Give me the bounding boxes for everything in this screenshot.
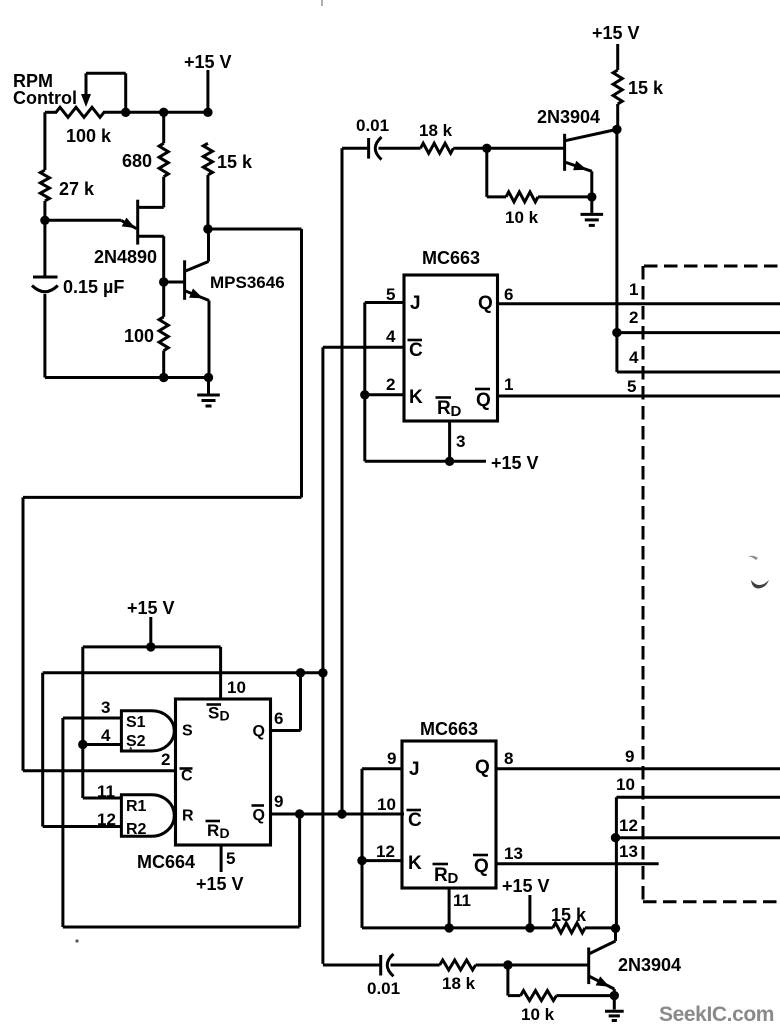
junction emitter/ground <box>204 373 213 382</box>
junction 27k/emitter/cap <box>40 216 49 225</box>
svg-text:C: C <box>409 340 423 361</box>
wire left vertical x=23 <box>22 497 25 770</box>
text MC663 top <box>422 248 480 268</box>
junction Qbar / 0.01 line <box>337 809 346 818</box>
pin label Q MC664 <box>253 723 265 740</box>
scan smudge crescent <box>748 556 769 589</box>
pin 9 MC664 <box>274 792 283 811</box>
wire SbarD stem pin10 <box>219 647 222 699</box>
wire RD stem MC664 pin5 <box>220 845 223 872</box>
resistor 27 k <box>40 112 49 220</box>
svg-text:0.01: 0.01 <box>367 979 400 998</box>
svg-text:C: C <box>408 810 422 831</box>
wire collector bus x=617 <box>615 129 618 372</box>
terminal 2 <box>629 308 638 327</box>
pin label Q bottom <box>475 757 490 778</box>
junction J-K tie bottom <box>357 856 366 865</box>
scan speck under S2 <box>130 747 133 751</box>
svg-text:Control: Control <box>13 88 77 108</box>
wire R2 input <box>43 825 122 828</box>
gate text R2 <box>126 821 147 838</box>
pin label J top <box>410 293 421 314</box>
gate R AND (R1,R2) <box>121 795 174 837</box>
wire collector to right vertical <box>208 228 302 231</box>
wire RD stem pin11 <box>448 888 451 928</box>
resistor 680 <box>159 112 168 176</box>
wire pin4 C clock from x=323 <box>323 346 404 349</box>
svg-text:2N3904: 2N3904 <box>618 955 681 975</box>
svg-text:Q: Q <box>476 390 491 411</box>
wire line 4 corner <box>617 371 780 374</box>
svg-text:J: J <box>410 293 421 314</box>
svg-text:2: 2 <box>386 375 395 394</box>
svg-text:S2: S2 <box>126 733 146 750</box>
pin label J bottom <box>409 759 420 780</box>
svg-text:D: D <box>451 403 462 420</box>
svg-text:5: 5 <box>226 849 235 868</box>
gate S AND (S1,S2) <box>121 711 174 751</box>
svg-text:R: R <box>182 808 194 825</box>
wire +15V stem top-left <box>206 70 209 112</box>
svg-text:11: 11 <box>453 891 471 910</box>
svg-text:MC664: MC664 <box>137 852 195 872</box>
wire line 2 <box>617 331 780 334</box>
text +15 V bottom <box>502 876 550 896</box>
wire Q up <box>299 673 302 731</box>
junction clock feed MC663 top <box>318 668 327 677</box>
svg-text:R1: R1 <box>126 798 147 815</box>
svg-text:13: 13 <box>619 842 638 861</box>
junction emitter/ground top 2N3904 <box>587 192 596 201</box>
junction J-K tie top <box>360 390 369 399</box>
pin 6 <box>504 285 513 304</box>
IC U1 MC663 top box <box>404 275 498 421</box>
resistor 18 k bottom <box>440 960 589 970</box>
pin 10 <box>227 678 246 697</box>
text RPM Control line2 <box>13 88 77 108</box>
svg-text:+15 V: +15 V <box>184 52 232 72</box>
pin 12 MC664 <box>97 810 116 829</box>
svg-text:10: 10 <box>616 775 635 794</box>
wire vertical x=323 <box>321 347 324 964</box>
svg-text:680: 680 <box>122 151 152 171</box>
svg-text:R: R <box>437 398 451 419</box>
svg-text:15 k: 15 k <box>217 152 253 172</box>
svg-text:4: 4 <box>386 327 396 346</box>
pin label S <box>182 723 193 740</box>
capacitor 0.01 bottom <box>323 954 440 976</box>
svg-text:1: 1 <box>629 280 638 299</box>
wire R1 input <box>83 797 122 800</box>
wire J-K vertical bottom <box>361 769 364 928</box>
wire horizontal y=497 <box>23 496 302 499</box>
value 15 k top-left <box>217 152 253 172</box>
svg-text:Q: Q <box>475 757 490 778</box>
terminal 5 <box>627 377 636 396</box>
dashed connector boundary top <box>644 265 780 268</box>
junction RD pin11 rail <box>444 923 453 932</box>
wire 0.01 vertical x=342 <box>341 148 344 814</box>
svg-text:18 k: 18 k <box>442 974 476 993</box>
svg-text:9: 9 <box>387 749 396 768</box>
value 100 <box>124 326 154 346</box>
pin 12 bottom <box>376 842 395 861</box>
resistor 18 k top <box>421 143 565 153</box>
junction 680 top <box>159 108 168 117</box>
ground top-right <box>581 197 604 226</box>
wire line 10 corner <box>616 797 780 928</box>
wire R2 feedback vertical <box>41 673 44 827</box>
value 10 k bottom <box>521 1005 555 1024</box>
pin label Cbar MC664 <box>180 768 194 785</box>
transistor Q1 2N4890 (UJT) <box>45 177 164 282</box>
pin 9 bottom <box>387 749 396 768</box>
wire pot left lead <box>45 111 57 114</box>
text RPM Control line1 <box>13 71 53 91</box>
svg-text:+15 V: +15 V <box>127 598 175 618</box>
transistor Q3 2N3904 top <box>565 129 617 197</box>
wire line 13 from Qbar <box>496 862 659 865</box>
svg-text:6: 6 <box>504 285 513 304</box>
svg-text:D: D <box>220 825 230 841</box>
svg-text:4: 4 <box>629 348 639 367</box>
junction pot wiper/right <box>121 108 130 117</box>
pin 6 MC664 <box>274 709 283 728</box>
svg-text:2: 2 <box>629 308 638 327</box>
svg-text:10 k: 10 k <box>521 1005 555 1024</box>
svg-text:3: 3 <box>101 698 110 717</box>
terminal 10 <box>616 775 635 794</box>
resistor 15 k top-right <box>613 44 622 129</box>
pin 10 bottom <box>377 795 396 814</box>
text 2N3904 top <box>537 107 600 127</box>
pin 4 MC664 <box>101 726 111 745</box>
resistor 15 k top-left <box>203 143 212 229</box>
svg-text:10 k: 10 k <box>505 208 539 227</box>
svg-text:+15 V: +15 V <box>502 876 550 896</box>
value 0.01 bottom <box>367 979 400 998</box>
pot wiper loop wire <box>86 73 126 112</box>
terminal 1 <box>629 280 638 299</box>
svg-text:MPS3646: MPS3646 <box>210 273 285 292</box>
svg-text:15 k: 15 k <box>551 905 587 925</box>
junction collector 15k node <box>612 125 621 134</box>
pin label Qbar top <box>475 389 491 411</box>
wire pin2 K <box>365 393 404 396</box>
svg-text:MC663: MC663 <box>422 248 480 268</box>
junction +15V rail / pot wire <box>203 108 212 117</box>
pin 13 <box>504 844 523 863</box>
svg-text:S: S <box>182 723 193 740</box>
ground bottom <box>605 996 624 1021</box>
svg-text:2N4890: 2N4890 <box>94 247 157 267</box>
pin label RbarD top <box>436 398 462 421</box>
svg-text:SeekIC.com: SeekIC.com <box>659 1003 774 1026</box>
wire Q output MC664 <box>271 729 301 732</box>
svg-text:15 k: 15 k <box>628 78 664 98</box>
value 100 k <box>66 126 112 146</box>
text +15 V top-left <box>184 52 232 72</box>
svg-text:Q: Q <box>478 293 493 314</box>
text +15 V top-right <box>592 23 640 43</box>
svg-text:13: 13 <box>504 844 523 863</box>
wire +15V feed MC663 top <box>365 460 486 463</box>
wire right vertical x=301 <box>300 229 303 497</box>
junction S2 tie <box>78 740 87 749</box>
pin 3 MC664 <box>101 698 110 717</box>
terminal 12 <box>619 816 638 835</box>
svg-text:10: 10 <box>227 678 246 697</box>
svg-text:0.15 µF: 0.15 µF <box>63 277 124 297</box>
dashed connector boundary bottom <box>643 900 780 903</box>
capacitor 0.01 top <box>342 137 421 160</box>
wire J-K vertical top <box>363 303 366 462</box>
junction Q feedback <box>296 668 305 677</box>
svg-text:+15 V: +15 V <box>196 874 244 894</box>
wire line 5 from Qbar pin1 <box>498 395 780 398</box>
wire +15V rail bottom <box>362 926 553 929</box>
pin 11 bottom <box>453 891 471 910</box>
pin label Cbar bottom <box>407 810 423 831</box>
svg-text:9: 9 <box>274 792 283 811</box>
value 10 k top <box>505 208 539 227</box>
junction base 2N3904 bottom <box>503 960 512 969</box>
gate text S1 <box>126 714 146 731</box>
svg-text:10: 10 <box>377 795 396 814</box>
pin label Cbar top <box>408 340 424 361</box>
svg-text:J: J <box>409 759 420 780</box>
pin 3 <box>456 432 465 451</box>
pin 2 <box>386 375 395 394</box>
svg-text:5: 5 <box>386 285 395 304</box>
svg-text:18 k: 18 k <box>419 121 453 140</box>
wire pin12 K bottom <box>362 859 402 862</box>
svg-text:12: 12 <box>376 842 395 861</box>
svg-text:1: 1 <box>504 375 513 394</box>
pin 5 MC664 <box>226 849 235 868</box>
svg-text:K: K <box>409 387 423 408</box>
wire line 12 <box>616 836 780 839</box>
wire pot right lead to node <box>103 111 209 114</box>
wire pin5 J <box>365 301 404 304</box>
svg-text:12: 12 <box>619 816 638 835</box>
IC U2 MC664 box <box>176 699 271 845</box>
value 18 k bottom <box>442 974 476 993</box>
capacitor 0.15 uF <box>32 220 58 377</box>
scan speck top edge <box>321 0 323 6</box>
wire Q feedback horizontal y=672 <box>43 671 323 674</box>
svg-text:100 k: 100 k <box>66 126 112 146</box>
wire MC664 top rail <box>83 645 221 648</box>
pin 5 <box>386 285 395 304</box>
svg-text:Q: Q <box>474 856 489 877</box>
value 0.01 top <box>356 116 389 135</box>
pin label Q top <box>478 293 493 314</box>
svg-text:K: K <box>408 853 422 874</box>
pin 8 <box>504 749 513 768</box>
pin label RbarD MC664 <box>206 821 230 841</box>
scan speck bottom-left <box>75 939 78 942</box>
text 2N4890 <box>94 247 157 267</box>
svg-text:4: 4 <box>101 726 111 745</box>
pin 1 <box>504 375 513 394</box>
svg-text:6: 6 <box>274 709 283 728</box>
pin label SbarD <box>207 704 230 724</box>
pin label R <box>182 808 194 825</box>
svg-text:2N3904: 2N3904 <box>537 107 600 127</box>
text +15 V MC663 top <box>491 453 539 473</box>
ground oscillator <box>197 378 220 407</box>
svg-text:D: D <box>448 870 459 887</box>
svg-text:C: C <box>181 768 193 785</box>
pin label RbarD bottom <box>433 864 459 887</box>
value 680 <box>122 151 152 171</box>
pin 11 MC664 <box>97 782 115 801</box>
text MC664 <box>137 852 195 872</box>
wire line 1 from Q pin6 <box>498 302 780 305</box>
svg-text:S: S <box>208 704 219 723</box>
svg-text:3: 3 <box>456 432 465 451</box>
svg-text:S1: S1 <box>126 714 146 731</box>
svg-text:5: 5 <box>627 377 636 396</box>
wire RD stem pin3 <box>448 421 451 461</box>
dashed connector boundary vertical <box>642 266 645 902</box>
svg-text:Q: Q <box>253 723 265 740</box>
svg-text:27 k: 27 k <box>59 179 95 199</box>
terminal 13 <box>619 842 638 861</box>
potentiometer 100 k body <box>56 107 104 117</box>
pin 4 <box>386 327 396 346</box>
text +15 V MC664 <box>127 598 175 618</box>
junction collector bottom node <box>611 924 620 933</box>
junction collector / 15k / wire right <box>203 224 212 233</box>
junction line 2 tap <box>612 328 621 337</box>
svg-text:9: 9 <box>625 747 634 766</box>
watermark SeekIC.com <box>659 1003 774 1026</box>
node base MPS3646 / 100 top <box>159 277 168 286</box>
gate text S2 <box>126 733 146 750</box>
resistor 10 k top <box>487 148 592 202</box>
wire S2 input <box>83 743 122 746</box>
wire bottom rail oscillator <box>45 376 209 379</box>
svg-text:D: D <box>220 708 230 724</box>
pin label Qbar MC664 <box>252 806 265 825</box>
value 0.15 uF <box>63 277 124 297</box>
svg-text:R: R <box>434 865 448 886</box>
pot wiper arrow <box>81 94 91 107</box>
svg-text:2: 2 <box>161 750 170 769</box>
wire S1 input <box>63 717 122 720</box>
wire +15V vertical to R1 <box>81 647 84 798</box>
value 27 k <box>59 179 95 199</box>
svg-text:8: 8 <box>504 749 513 768</box>
value 15 k top-right <box>628 78 664 98</box>
gate text R1 <box>126 798 147 815</box>
svg-text:R2: R2 <box>126 821 147 838</box>
junction +15V MC664 rail <box>146 642 155 651</box>
wire line 9 from Q pin8 <box>496 767 780 770</box>
text +15 V MC664 RD <box>196 874 244 894</box>
junction base 2N3904 top / 10k <box>482 144 491 153</box>
pin label K top <box>409 387 423 408</box>
terminal 9 <box>625 747 634 766</box>
terminal 4 <box>629 348 639 367</box>
transistor Q4 2N3904 bottom <box>589 928 616 995</box>
pin label Qbar bottom <box>473 855 489 877</box>
text MC663 bottom <box>420 719 478 739</box>
text 2N3904 bottom <box>618 955 681 975</box>
wire clock input MC664 <box>23 769 176 772</box>
value 18 k top <box>419 121 453 140</box>
junction 100 bottom <box>159 373 168 382</box>
pin 2 MC664 <box>161 750 170 769</box>
resistor 10 k bottom <box>508 965 614 1001</box>
svg-text:+15 V: +15 V <box>592 23 640 43</box>
resistor 15 k bottom <box>553 923 616 933</box>
junction emitter/ground bottom <box>610 991 619 1000</box>
wire S1 feedback up to Qbar <box>298 814 301 927</box>
wire pin9 J bottom <box>362 767 402 770</box>
svg-text:Q: Q <box>253 807 265 824</box>
wire +15V stem bottom <box>528 895 531 928</box>
junction RD pin3 +15V <box>445 457 454 466</box>
svg-text:0.01: 0.01 <box>356 116 389 135</box>
pin label K bottom <box>408 853 422 874</box>
svg-text:R: R <box>207 821 219 840</box>
text MPS3646 <box>210 273 285 292</box>
wire Qbar output net y=814 <box>271 813 405 816</box>
wire S1 feedback bottom <box>63 926 300 929</box>
value 15 k bottom <box>551 905 587 925</box>
transistor Q2 MPS3646 <box>164 229 209 378</box>
svg-text:100: 100 <box>124 326 154 346</box>
wire +15V stem MC664 <box>149 617 152 647</box>
svg-text:+15 V: +15 V <box>491 453 539 473</box>
IC U3 MC663 bottom box <box>402 741 496 888</box>
junction Qbar / S1 feedback <box>295 809 304 818</box>
junction +15V stem bottom <box>525 923 534 932</box>
junction line 12 tap <box>611 833 620 842</box>
svg-text:MC663: MC663 <box>420 719 478 739</box>
wire S1 feedback vertical <box>61 718 64 927</box>
resistor 100 <box>159 282 168 378</box>
